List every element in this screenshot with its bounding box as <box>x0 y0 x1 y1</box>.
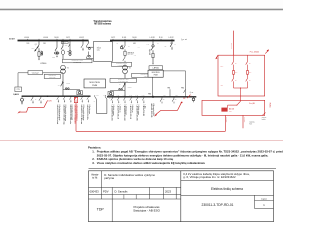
svg-text:pažyma: pažyma <box>104 176 114 180</box>
svg-text:Q1: Q1 <box>35 44 37 46</box>
svg-text:C: C <box>191 95 192 97</box>
branch to T1 meter <box>63 89 80 91</box>
svg-text:Lapas: Lapas <box>261 198 267 200</box>
bus tie link <box>96 99 98 113</box>
svg-text:Transformatorinės: Transformatorinės <box>93 20 112 23</box>
cabinet left stub components <box>88 41 90 44</box>
svg-text:PB3: PB3 <box>148 94 151 96</box>
right bus switch drop x162 <box>161 97 163 99</box>
title block table frame <box>89 171 274 222</box>
feeder 1 VT circle b <box>41 53 43 55</box>
riser from cabinet 2 to bus <box>152 77 154 97</box>
bus tick <box>62 39 64 41</box>
feeder 1 VT circle a <box>41 52 43 54</box>
left bus feeder x70.9 <box>70 96 72 97</box>
T2 instrument circle <box>120 46 122 48</box>
svg-text:MOLDTECH: MOLDTECH <box>152 72 160 74</box>
red incoming feed line <box>232 31 234 56</box>
T1 CT circle a <box>65 88 67 90</box>
svg-text:MOLDTECH: MOLDTECH <box>90 82 101 84</box>
grey page-edge band at top <box>0 0 283 9</box>
T2 CT circle b <box>121 89 123 91</box>
svg-text:Statytojas - AB ESO: Statytojas - AB ESO <box>133 209 161 213</box>
voltage transformer drop x70 <box>69 41 71 51</box>
svg-text:10/0,4kV 2x25: 10/0,4kV 2x25 <box>148 49 150 55</box>
svg-text:L-124m nauja kab. 2022: L-124m nauja kab. 2022 <box>152 103 154 116</box>
PTS box <box>15 87 22 92</box>
red box branch A <box>233 55 235 61</box>
red distribution cabinet box (upper) <box>218 55 265 96</box>
svg-text:g. 6, Vilniuje projektas Inv.: g. 6, Vilniuje projektas Inv. nr. E19331… <box>183 175 236 179</box>
svg-text:F-21: F-21 <box>163 95 166 97</box>
hanging voltmeter <box>21 96 23 98</box>
svg-text:D. Samulis: D. Samulis <box>115 189 129 193</box>
svg-text:4x16 Cu kab: 4x16 Cu kab <box>243 117 245 123</box>
svg-text:L-1004: L-1004 <box>24 37 29 39</box>
bus tick <box>82 39 84 41</box>
svg-text:to Nr.: to Nr. <box>92 176 98 179</box>
red metering cabinet box (lower) <box>202 100 265 115</box>
T2 feeder column <box>124 41 126 46</box>
svg-text:L-90m kab. esam: L-90m kab. esam <box>88 105 90 115</box>
left bus switch drop x41 <box>40 96 42 97</box>
svg-text:SMS L.4x35: SMS L.4x35 <box>49 77 55 79</box>
svg-text:Q10: Q10 <box>65 45 68 47</box>
svg-text:0,4kV KL 4x16: 0,4kV KL 4x16 <box>231 43 233 49</box>
svg-text:L.PR600: L.PR600 <box>40 63 46 65</box>
svg-text:F-22: F-22 <box>175 95 178 97</box>
cable label box C <box>63 59 93 63</box>
svg-text:L-2012: L-2012 <box>169 37 174 39</box>
svg-text:L.T-POW 3x70: L.T-POW 3x70 <box>73 61 81 63</box>
10kV feeder 2 / T1 metering cluster <box>56 41 58 48</box>
cable label box D <box>111 62 131 66</box>
svg-text:3.: 3. <box>92 161 95 165</box>
T2 LV breaker <box>123 84 125 88</box>
T1 LV breaker <box>61 82 63 86</box>
T1 kWh meter box <box>77 91 83 95</box>
svg-text:670: 670 <box>49 100 52 102</box>
10kV feeder 1 disconnector and fuse <box>38 41 40 46</box>
spare feeder x83 <box>82 41 84 45</box>
wire from T2 down <box>124 74 126 97</box>
red lower box switch <box>240 99 242 102</box>
red box branch B <box>247 55 249 61</box>
T1 CT circle b <box>68 88 70 90</box>
red tick near PB5 <box>187 95 190 99</box>
red drop cable 2 <box>242 115 244 128</box>
branch to T2 meter <box>111 89 125 91</box>
red route annotation middle <box>154 114 158 117</box>
left bus feeder x64.6 <box>64 96 66 97</box>
feeder 2 CT circle b <box>57 52 59 54</box>
bus tick <box>134 39 136 41</box>
left bus feeder x58.3 <box>57 96 59 97</box>
bus node circle <box>47 95 49 97</box>
svg-text:Visus statybos montavimo darbu: Visus statybos montavimo darbus atlikti … <box>97 161 206 165</box>
svg-text:RK: RK <box>183 98 185 100</box>
svg-text:100/5: 100/5 <box>52 57 55 59</box>
small bus label box x61-68 <box>61 42 68 44</box>
10kV sectionalizer cabinet box <box>93 42 112 62</box>
MOLDTECH PS4M cabinet box 2 <box>148 70 163 77</box>
svg-text:Q3: Q3 <box>58 84 60 86</box>
svg-text:L-78m kab. es: L-78m kab. es <box>118 105 120 113</box>
transformer T1 <box>61 65 66 70</box>
svg-text:T1: T1 <box>67 68 69 70</box>
bus tick <box>160 39 162 41</box>
cable label box F <box>110 78 137 82</box>
svg-text:PDV: PDV <box>103 189 109 193</box>
label box L.AP2012 <box>149 66 163 70</box>
lapas mini cell <box>254 195 256 208</box>
svg-text:L-96m kab. esamas: L-96m kab. esamas <box>112 105 114 116</box>
bus tick <box>38 39 40 41</box>
svg-text:4x16 Cu kab: 4x16 Cu kab <box>225 117 227 123</box>
red corner tick top-left of box <box>216 55 218 58</box>
svg-text:0,4kV: 0,4kV <box>13 93 19 96</box>
svg-text:TDP: TDP <box>97 207 105 211</box>
svg-text:1.: 1. <box>92 150 95 154</box>
PB4 tick <box>169 89 171 97</box>
feeder arrow <box>152 63 153 64</box>
T1 CT oval <box>62 50 65 54</box>
cable label box A <box>28 71 43 75</box>
svg-text:SMS L.2x25: SMS L.2x25 <box>32 73 38 75</box>
svg-text:T-2: T-2 <box>134 55 136 57</box>
svg-text:T2: T2 <box>129 68 131 70</box>
svg-text:L-1018: L-1018 <box>150 37 155 39</box>
svg-text:1000/5: 1000/5 <box>66 83 70 85</box>
svg-text:Elektros tinklų schema: Elektros tinklų schema <box>211 187 243 191</box>
cable label box E <box>132 73 163 77</box>
feeder 2 CT circle a <box>55 52 57 54</box>
bus tick <box>27 39 29 41</box>
red meter bar <box>221 108 227 112</box>
svg-text:Į p. st.: Į p. st. <box>182 38 188 41</box>
red cable route from RK-670 to cabinet <box>75 103 77 132</box>
0.4kV busbar left <box>22 95 91 97</box>
0.4kV busbar right <box>107 96 196 98</box>
MOLDTECH PS4M cabinet box <box>84 79 106 88</box>
svg-text:0,4: 0,4 <box>138 47 140 49</box>
feeder 2 arrow <box>56 56 57 57</box>
svg-text:MĮ-10: MĮ-10 <box>55 37 59 39</box>
svg-text:PTS: PTS <box>17 89 20 91</box>
svg-text:000433: 000433 <box>90 189 99 193</box>
wire from T1 down <box>62 74 64 97</box>
bus tick <box>171 39 173 41</box>
T2 kWh meter box <box>108 92 114 96</box>
svg-text:L-18: L-18 <box>147 44 150 46</box>
svg-text:S-10: S-10 <box>63 42 66 44</box>
red arrow top-right of box <box>265 50 269 54</box>
svg-text:PB4: PB4 <box>168 88 171 90</box>
svg-text:L.T-POW 3x70: L.T-POW 3x70 <box>118 65 126 67</box>
svg-text:10 kV: 10 kV <box>9 39 15 41</box>
wire to PB5 riser <box>163 70 185 72</box>
feeder fuse <box>152 53 154 57</box>
svg-text:Pvz. 4Z042: Pvz. 4Z042 <box>250 52 259 54</box>
svg-text:1000/5: 1000/5 <box>128 87 132 89</box>
10kV busbar segment 1 <box>18 40 89 42</box>
svg-text:230011-3-TDP-RD-01: 230011-3-TDP-RD-01 <box>201 203 233 207</box>
svg-text:kabelis: kabelis <box>262 119 266 121</box>
10kV busbar segment 2 <box>110 40 175 42</box>
bus tick <box>152 39 154 41</box>
red bottom-right corner tick <box>262 113 265 116</box>
svg-text:10-T1: 10-T1 <box>66 37 70 39</box>
feeder RK-670 highlighted red <box>75 96 77 97</box>
right bus node circle <box>152 96 154 98</box>
transformer T2 <box>123 65 128 70</box>
wire to left auxiliary <box>18 72 63 74</box>
feeder 1 outgoing arrow <box>38 59 39 61</box>
end instrument on right bus <box>193 97 195 98</box>
title block horizontals <box>89 186 181 188</box>
svg-text:4S1: 4S1 <box>133 43 136 45</box>
PB5 switch <box>184 90 186 93</box>
feeder 1 branch arrow to left <box>35 46 39 50</box>
pink fold line <box>0 139 283 141</box>
left bus feeder x82.2 <box>81 96 83 97</box>
spare drop x172 <box>171 41 173 44</box>
T1 feeder column <box>62 41 64 47</box>
T2 CT circle a <box>119 89 121 91</box>
rule above title block <box>89 168 277 170</box>
svg-text:Nr. 6: Nr. 6 <box>249 123 252 125</box>
svg-text:MĮ-10: MĮ-10 <box>133 37 137 39</box>
bus tick <box>112 39 114 41</box>
title block verticals <box>180 171 182 222</box>
left bus switch drop x33 <box>32 96 34 97</box>
cable label box B <box>44 74 60 78</box>
feeder L.AP2012 column <box>152 41 154 45</box>
svg-text:IP54: IP54 <box>221 85 224 87</box>
bus tick <box>124 39 126 41</box>
svg-text:L-99m kab. esama: L-99m kab. esama <box>137 105 139 115</box>
svg-text:L-1012: L-1012 <box>79 37 84 39</box>
svg-text:PB5: PB5 <box>181 88 184 90</box>
red route annotation left <box>17 111 20 114</box>
svg-text:1S1: 1S1 <box>27 43 30 45</box>
svg-text:S-101: S-101 <box>122 37 126 39</box>
svg-text:2S1: 2S1 <box>43 43 46 45</box>
PB5 riser <box>185 71 187 97</box>
svg-text:L-1006: L-1006 <box>43 37 48 39</box>
svg-text:PS4M: PS4M <box>92 85 97 87</box>
svg-text:MT-2005 schema: MT-2005 schema <box>94 24 111 26</box>
svg-text:esamas: esamas <box>262 117 267 119</box>
svg-text:L-84m kab. es: L-84m kab. es <box>131 105 133 113</box>
feeder instrument circle <box>152 45 154 47</box>
svg-text:RK-670 es: RK-670 es <box>268 103 270 108</box>
left bus feeder x88.3 <box>87 96 89 97</box>
bus tick <box>56 39 58 41</box>
T2 fuse <box>124 51 126 55</box>
right bus switch drop x174 <box>173 97 175 99</box>
red box branch join <box>234 87 248 89</box>
svg-text:2023: 2023 <box>165 189 171 193</box>
bus tick <box>69 39 71 41</box>
